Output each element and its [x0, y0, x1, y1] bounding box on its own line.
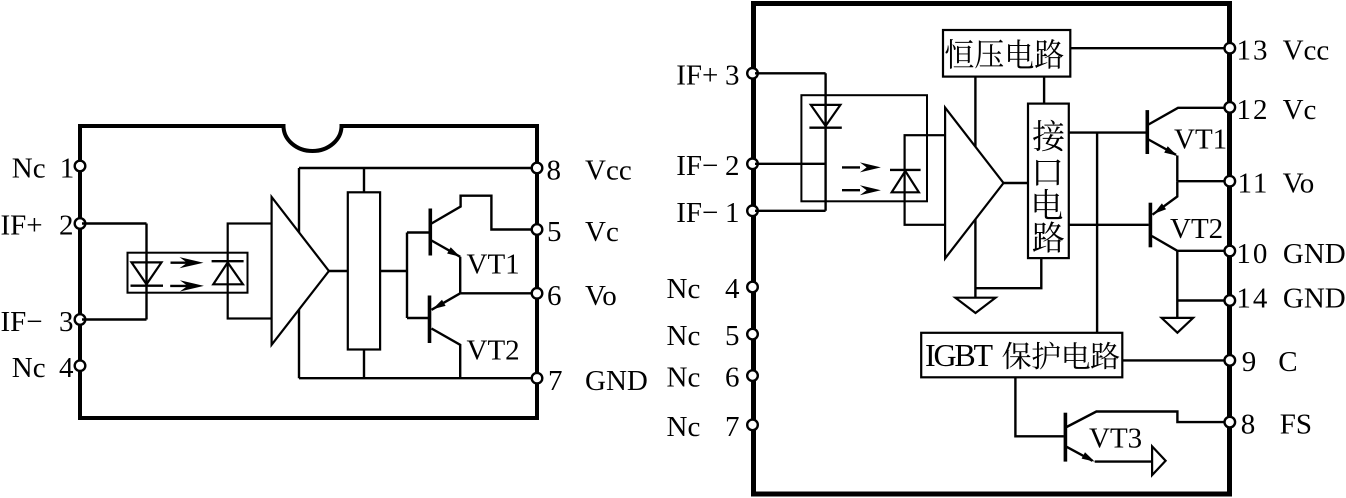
- svg-text:Vcc: Vcc: [585, 155, 632, 187]
- interface circuit box 接口电路: [1028, 104, 1069, 259]
- Vo wire to pin 11: [1177, 180, 1225, 182]
- pin 6: [532, 288, 543, 299]
- svg-text:GND: GND: [585, 365, 648, 397]
- pin 11: [1225, 176, 1236, 187]
- svg-text:IF−: IF−: [676, 150, 718, 182]
- pin 5 right: [747, 329, 758, 340]
- svg-text:VT3: VT3: [1089, 423, 1142, 455]
- svg-text:Nc: Nc: [667, 362, 701, 394]
- svg-text:5: 5: [547, 216, 562, 248]
- pin 7: [532, 373, 543, 384]
- pin 10: [1225, 246, 1236, 257]
- GND bottom rail: [299, 377, 533, 379]
- svg-text:VT2: VT2: [467, 335, 520, 367]
- svg-text:IF−: IF−: [1, 306, 43, 338]
- VT2 base wire: [407, 317, 428, 319]
- photodiode D4 input box: [905, 135, 946, 225]
- LED D3 triangle: [811, 105, 841, 126]
- VT3 emitter: [1067, 447, 1153, 462]
- base strap vertical right: [1096, 133, 1098, 333]
- svg-text:4: 4: [725, 273, 740, 305]
- pin 2 right: [747, 159, 758, 170]
- svg-text:IF−: IF−: [676, 197, 718, 229]
- photodiode D2 cathode bar: [212, 260, 244, 262]
- transistor VT2 base bar: [428, 296, 432, 344]
- light arrow 1: [171, 262, 189, 264]
- amplifier U1A triangle: [272, 197, 329, 345]
- left IC package body U1: [80, 126, 537, 418]
- transistor VT1 right base bar: [1146, 110, 1150, 154]
- resistor bottom stub: [363, 350, 365, 379]
- Vcc top rail: [299, 167, 533, 169]
- svg-text:IF+: IF+: [1, 209, 43, 241]
- VT1 base wire right: [1069, 131, 1146, 133]
- Vo rail to pin 6: [460, 292, 532, 294]
- transistor VT3 base bar: [1064, 413, 1068, 462]
- right IC package body U2: [754, 4, 1230, 495]
- svg-text:6: 6: [725, 362, 740, 394]
- pin 4 right: [747, 282, 758, 293]
- ground symbol below VT2: [1162, 318, 1194, 333]
- wire pin3 to LED cathode: [82, 318, 147, 320]
- svg-text:GND: GND: [1283, 283, 1346, 315]
- pin 7 right: [747, 420, 758, 431]
- VT1 right emitter: [1149, 140, 1178, 182]
- svg-text:7: 7: [725, 411, 740, 443]
- optocoupler boundary box: [128, 253, 248, 293]
- LED D3 cathode bar: [809, 126, 841, 128]
- light arrow 2: [170, 285, 188, 287]
- pin 14: [1225, 295, 1236, 306]
- pin 3 right: [747, 68, 758, 79]
- wire pin2 junction: [755, 163, 826, 165]
- svg-text:12: 12: [1237, 94, 1270, 126]
- pin 4: [75, 360, 86, 371]
- svg-text:Nc: Nc: [12, 352, 46, 384]
- wire const-voltage box to interface box: [1043, 77, 1045, 104]
- svg-text:3: 3: [59, 306, 74, 338]
- wire amp output to resistor: [329, 270, 348, 272]
- svg-text:3: 3: [725, 59, 740, 91]
- VT3 collector to pin 8: [1067, 412, 1226, 428]
- amplifier U2A triangle: [945, 108, 1003, 259]
- constant voltage circuit box 恒压电路: [943, 30, 1070, 77]
- VT2 right collector to pin 10: [1152, 236, 1226, 251]
- VT3 output open arrow: [1152, 446, 1166, 475]
- LED D1 cathode bar: [131, 285, 164, 287]
- svg-text:IGBT: IGBT: [925, 337, 994, 373]
- VT2 base wire right: [1069, 224, 1149, 226]
- svg-text:8: 8: [547, 155, 562, 187]
- wire resistor to base node: [380, 270, 407, 272]
- pin 2: [75, 218, 86, 229]
- svg-text:11: 11: [1238, 168, 1270, 200]
- svg-text:13: 13: [1237, 35, 1270, 67]
- photodiode D4 cathode bar: [890, 169, 921, 171]
- svg-text:4: 4: [59, 352, 74, 384]
- transistor VT1 base bar: [428, 209, 432, 256]
- svg-text:VT1: VT1: [1174, 124, 1227, 156]
- svg-text:VT1: VT1: [467, 249, 520, 281]
- wire pin1 junction: [755, 210, 826, 212]
- svg-text:Vc: Vc: [585, 216, 619, 248]
- wire LED branch vertical: [145, 224, 147, 320]
- resistor R1 body: [348, 192, 380, 349]
- pin 1: [75, 161, 86, 172]
- light arrow 4: [842, 189, 860, 191]
- wire IGBT box to VT3 base: [1015, 377, 1063, 436]
- VT1 base wire: [407, 231, 429, 233]
- VT2 emitter wire: [432, 293, 461, 310]
- pin 3: [75, 314, 86, 325]
- photodiode D2 triangle: [213, 263, 243, 285]
- VT1 collector wire to pin 5: [432, 196, 533, 230]
- ground symbol below amp: [955, 298, 995, 313]
- pin 13: [1225, 43, 1236, 54]
- svg-text:2: 2: [725, 150, 740, 182]
- svg-text:GND: GND: [1283, 238, 1346, 270]
- svg-text:14: 14: [1236, 283, 1269, 315]
- LED branch vertical right: [824, 73, 826, 211]
- photodiode D2 input box: [228, 224, 272, 319]
- svg-text:Nc: Nc: [12, 153, 46, 185]
- optocoupler boundary box right: [801, 95, 927, 201]
- VT2 collector wire: [432, 329, 461, 379]
- pin 9: [1225, 355, 1236, 366]
- wire interface box bottom to ground line: [975, 258, 1041, 288]
- LED D1 triangle: [132, 262, 162, 284]
- svg-text:VT2: VT2: [1170, 213, 1223, 245]
- photodiode D4 triangle: [892, 171, 919, 192]
- wire to pin 14 and ground: [1177, 251, 1225, 318]
- svg-text:Nc: Nc: [667, 320, 701, 352]
- resistor top stub: [363, 168, 365, 192]
- pin 12: [1225, 102, 1236, 113]
- svg-text:Vc: Vc: [1283, 94, 1317, 126]
- svg-text:IF+: IF+: [676, 59, 718, 91]
- svg-text:1: 1: [60, 153, 75, 185]
- svg-text:8: 8: [1241, 409, 1256, 441]
- wire pin3 to LED: [755, 72, 826, 74]
- wire pin2 to LED anode: [82, 222, 147, 224]
- wire const voltage box to pin 13: [1070, 47, 1225, 49]
- left vertical rail: [298, 168, 300, 378]
- svg-text:9: 9: [1242, 346, 1257, 378]
- light arrow 3: [842, 166, 860, 168]
- pin 1 right: [747, 206, 758, 217]
- pin 8 right: [1225, 417, 1236, 428]
- svg-text:1: 1: [725, 197, 740, 229]
- svg-text:6: 6: [547, 280, 562, 312]
- wire IGBT box to pin 9: [1122, 359, 1225, 361]
- svg-text:Vo: Vo: [585, 280, 617, 312]
- svg-text:C: C: [1278, 346, 1297, 378]
- transistor VT2 right base bar: [1149, 203, 1153, 248]
- VT1 emitter wire: [432, 241, 461, 294]
- wire const-voltage box down to ground (through amp): [974, 77, 976, 298]
- wire amp output to interface box: [1004, 182, 1029, 184]
- VT1 right collector to pin 12: [1149, 108, 1226, 125]
- svg-text:10: 10: [1236, 238, 1269, 270]
- svg-text:7: 7: [548, 365, 563, 397]
- base strap vertical: [406, 233, 408, 319]
- svg-text:Vo: Vo: [1283, 168, 1315, 200]
- svg-text:FS: FS: [1280, 409, 1312, 441]
- svg-text:Vcc: Vcc: [1283, 35, 1330, 67]
- IGBT protection circuit box IGBT 保护电路: [921, 333, 1122, 378]
- pin 8: [532, 163, 543, 174]
- svg-text:Nc: Nc: [667, 411, 701, 443]
- pin 6 right: [747, 370, 758, 381]
- svg-text:2: 2: [59, 209, 74, 241]
- svg-text:5: 5: [725, 320, 740, 352]
- VT2 right emitter: [1153, 181, 1178, 215]
- svg-text:Nc: Nc: [667, 273, 701, 305]
- pin 5: [532, 224, 543, 235]
